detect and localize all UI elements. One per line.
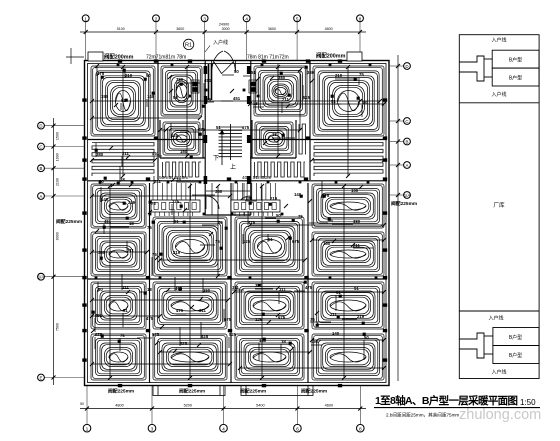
svg-text:51: 51 [216, 125, 221, 130]
svg-text:150: 150 [351, 188, 359, 193]
svg-text:1:50: 1:50 [520, 398, 536, 407]
sidebar divider bottom [459, 310, 539, 312]
axis bubble 6 (bottom) [294, 424, 302, 432]
svg-text:75: 75 [215, 239, 220, 244]
heating coil bath A tub [163, 122, 200, 155]
svg-text:51: 51 [174, 219, 179, 224]
bottom axis lines [87, 385, 360, 424]
svg-text:475: 475 [146, 316, 154, 321]
svg-text:451: 451 [104, 219, 112, 224]
svg-text:475: 475 [305, 285, 313, 290]
svg-text:4800: 4800 [115, 403, 123, 407]
svg-text:475: 475 [97, 71, 105, 76]
svg-text:4: 4 [222, 426, 225, 432]
svg-text:311: 311 [279, 287, 287, 292]
sidebar divider top [459, 102, 539, 104]
axis bubble 1/A (right) [404, 192, 411, 199]
svg-text:3000: 3000 [222, 27, 230, 31]
svg-text:B: B [406, 139, 409, 144]
svg-text:75: 75 [120, 333, 125, 338]
svg-text:B户型: B户型 [509, 352, 522, 359]
svg-text:51: 51 [123, 308, 128, 313]
svg-text:B: B [40, 166, 43, 171]
svg-text:211: 211 [127, 248, 135, 253]
svg-text:入户线: 入户线 [491, 369, 506, 376]
svg-text:18: 18 [147, 287, 152, 292]
svg-text:5: 5 [296, 16, 299, 21]
unit entry door right [237, 196, 250, 209]
svg-text:50: 50 [98, 287, 103, 292]
svg-text:D: D [39, 123, 42, 128]
leader lines and valves [91, 64, 373, 361]
core manifold boxes [191, 80, 257, 93]
svg-text:51: 51 [354, 286, 359, 291]
heating coil living B-top-right [313, 66, 384, 136]
svg-text:2: 2 [155, 16, 158, 21]
heating coil bed A2 top [161, 66, 202, 116]
exterior wall inner [88, 64, 387, 383]
svg-text:75: 75 [298, 214, 303, 219]
axis bubble A (right) [404, 162, 411, 169]
heating coil living A-top-left [91, 66, 155, 136]
svg-text:8: 8 [359, 16, 362, 21]
svg-text:1: 1 [86, 426, 89, 432]
svg-text:211: 211 [330, 312, 338, 317]
heating coil bed B2 top [254, 66, 307, 116]
svg-text:40m 51m50m: 40m 51m50m [242, 175, 271, 181]
svg-text:475: 475 [204, 97, 212, 102]
svg-text:150: 150 [311, 339, 319, 344]
svg-text:6: 6 [296, 426, 299, 432]
svg-text:2100: 2100 [56, 178, 60, 186]
svg-text:入户线: 入户线 [213, 39, 228, 46]
svg-text:C: C [39, 144, 42, 149]
sidebar outline [459, 35, 539, 379]
riser tag R1 [183, 39, 193, 49]
svg-text:311: 311 [199, 308, 207, 313]
svg-text:D: D [405, 64, 408, 69]
bottom dimension line [80, 402, 366, 411]
svg-text:75: 75 [359, 72, 364, 77]
svg-text:51: 51 [331, 99, 336, 104]
svg-text:219: 219 [335, 73, 343, 78]
svg-text:219: 219 [173, 250, 181, 255]
svg-text:380: 380 [215, 189, 223, 194]
svg-text:下: 下 [213, 155, 219, 162]
svg-text:125: 125 [243, 239, 251, 244]
sidebar manifold bracket top [459, 56, 492, 81]
svg-text:E: E [40, 375, 43, 380]
svg-text:3600: 3600 [176, 27, 184, 31]
svg-text:51: 51 [336, 290, 341, 295]
svg-text:3600: 3600 [268, 27, 276, 31]
svg-text:8: 8 [359, 426, 362, 432]
svg-text:1600: 1600 [56, 153, 60, 161]
svg-text:3: 3 [151, 426, 154, 432]
svg-text:阀配200mm: 阀配200mm [104, 53, 134, 61]
svg-text:入户线: 入户线 [491, 91, 506, 98]
heating coil room D14 [312, 282, 384, 329]
manifold riser bundle A [153, 183, 195, 216]
svg-text:150: 150 [180, 149, 188, 154]
svg-text:150: 150 [101, 94, 109, 99]
heating coil duct strip B [299, 124, 306, 154]
svg-text:75: 75 [176, 177, 181, 182]
svg-text:5200: 5200 [184, 403, 192, 407]
svg-text:阀配225mm: 阀配225mm [391, 200, 417, 207]
sidebar unit box B1 top [492, 50, 539, 68]
svg-text:zhulong.com: zhulong.com [459, 407, 541, 423]
svg-text:525: 525 [229, 332, 237, 337]
unit entry door left [206, 196, 219, 209]
heating coil room C14 [312, 184, 384, 228]
interior walls [88, 61, 387, 383]
sidebar unit box B2 top [492, 68, 539, 86]
svg-text:380: 380 [96, 152, 104, 157]
svg-text:380: 380 [307, 70, 315, 75]
svg-text:5400: 5400 [256, 403, 264, 407]
top-left parapet [88, 52, 103, 61]
axis bubble E (left) [38, 374, 45, 381]
right axis lines [390, 66, 404, 195]
axis bubble 4 (top) [243, 15, 250, 22]
entry door swing [212, 51, 236, 74]
svg-text:75: 75 [151, 201, 156, 206]
axis bubble 1 (top) [82, 15, 89, 22]
svg-text:51: 51 [251, 70, 256, 75]
svg-text:18: 18 [253, 101, 258, 106]
svg-text:451: 451 [233, 96, 241, 101]
entry riser pipes [209, 64, 212, 100]
svg-text:50: 50 [173, 95, 178, 100]
heating coil room D13 [235, 282, 304, 329]
heating coil room C-tall 3 [235, 217, 304, 276]
heating coil hall B [314, 143, 383, 177]
svg-text:3: 3 [203, 16, 206, 21]
svg-text:B户型: B户型 [509, 75, 522, 82]
valve squares [95, 64, 378, 280]
svg-text:475: 475 [176, 308, 184, 313]
title underline [374, 407, 540, 409]
svg-text:B户型: B户型 [509, 334, 522, 341]
svg-text:4: 4 [245, 16, 248, 21]
axis bubble 3 (top) [201, 15, 208, 22]
svg-text:1/A: 1/A [404, 193, 411, 198]
sidebar unit box B1 bottom [493, 328, 539, 346]
svg-text:219: 219 [125, 73, 133, 78]
svg-text:1: 1 [84, 16, 87, 21]
svg-text:219: 219 [357, 314, 365, 319]
svg-text:451: 451 [152, 151, 160, 156]
svg-text:50: 50 [80, 402, 84, 406]
svg-text:140: 140 [101, 197, 109, 202]
manifold riser bundle B [233, 183, 275, 216]
svg-text:675: 675 [292, 239, 300, 244]
manifold B [231, 200, 280, 212]
axis bubble 3 (bottom) [148, 424, 156, 432]
svg-text:211: 211 [282, 97, 290, 102]
svg-text:7500: 7500 [56, 323, 60, 331]
svg-text:18: 18 [362, 100, 367, 105]
axis bubble 1 (bottom) [83, 424, 91, 432]
svg-text:140: 140 [332, 331, 340, 336]
entry steps left [153, 386, 225, 396]
axis bubble 8 (top) [357, 15, 364, 22]
right dimension line [396, 55, 400, 381]
top-left stub dimension [66, 48, 84, 64]
axis bubble D (right) [404, 63, 411, 70]
room dimension arrows [90, 65, 386, 380]
core lobby lines [206, 183, 250, 215]
svg-text:525: 525 [180, 341, 188, 346]
svg-text:入户线: 入户线 [491, 37, 506, 44]
svg-text:18: 18 [281, 339, 286, 344]
axis bubble C (right) [404, 118, 411, 125]
svg-text:150: 150 [323, 241, 331, 246]
axis bubble 8 (bottom) [357, 424, 365, 432]
heating coil room D12 [153, 282, 227, 329]
svg-text:阀配225mm: 阀配225mm [56, 218, 82, 225]
top dimension line [80, 23, 366, 35]
svg-text:阀配225mm: 阀配225mm [240, 388, 266, 395]
svg-text:18: 18 [272, 132, 277, 137]
svg-text:18: 18 [120, 177, 125, 182]
svg-text:1至8轴A、B户型一层采暖平面图: 1至8轴A、B户型一层采暖平面图 [375, 394, 518, 407]
svg-text:1/A: 1/A [38, 275, 45, 280]
core columns [204, 66, 251, 184]
svg-text:675: 675 [224, 317, 232, 322]
svg-text:6000: 6000 [56, 232, 60, 240]
axis bubble B (right) [404, 138, 411, 145]
svg-text:阀配225mm: 阀配225mm [108, 388, 134, 395]
svg-text:阀配225mm: 阀配225mm [301, 388, 327, 395]
heating coil kitchen B [255, 162, 306, 177]
svg-text:A: A [406, 163, 409, 168]
svg-text:211: 211 [122, 151, 130, 156]
exterior wall outer [85, 61, 390, 386]
svg-text:211: 211 [122, 285, 130, 290]
heating coil room D11 [91, 282, 146, 329]
svg-text:50: 50 [276, 213, 281, 218]
svg-text:150: 150 [203, 288, 211, 293]
svg-text:4600: 4600 [325, 403, 333, 407]
heating coil bath B tub [255, 122, 293, 155]
svg-text:50m51m 40m: 50m51m 40m [159, 175, 188, 181]
left dimension line [52, 118, 60, 385]
svg-text:78m 81m 71m72m: 78m 81m 71m72m [247, 55, 289, 61]
heating coil kitchen A [163, 162, 202, 177]
svg-text:475: 475 [248, 220, 256, 225]
svg-text:5100: 5100 [117, 27, 125, 31]
svg-text:675: 675 [278, 315, 286, 320]
axis bubble 1/A (left) [38, 273, 45, 280]
svg-text:50: 50 [218, 220, 223, 225]
svg-text:219: 219 [270, 196, 278, 201]
svg-text:厂库: 厂库 [493, 201, 505, 209]
svg-text:475: 475 [198, 127, 206, 132]
svg-text:A: A [40, 194, 43, 199]
svg-text:125: 125 [255, 317, 263, 322]
svg-text:525: 525 [152, 332, 160, 337]
scattered dimension annotations [95, 69, 369, 346]
axis bubble 2 (top) [153, 15, 160, 22]
svg-text:380: 380 [353, 219, 361, 224]
axis bubble C (left) [38, 143, 45, 150]
heating coil room D21 [91, 334, 146, 380]
svg-text:上: 上 [230, 163, 236, 171]
manifold A [151, 200, 200, 212]
svg-text:入户线: 入户线 [488, 315, 503, 322]
svg-text:1500: 1500 [56, 132, 60, 140]
svg-text:R1: R1 [185, 43, 192, 49]
svg-text:125: 125 [171, 133, 179, 138]
svg-text:2.b间距间距25mm，其余间距75mm: 2.b间距间距25mm，其余间距75mm [386, 412, 459, 419]
axis bubble 5 (top) [294, 15, 301, 22]
sidebar manifold bracket bottom [459, 333, 493, 358]
svg-text:51: 51 [268, 237, 273, 242]
svg-text:B户型: B户型 [509, 57, 522, 64]
wall junction columns [82, 59, 387, 387]
svg-text:125: 125 [172, 199, 180, 204]
sidebar unit box B2 bottom [493, 346, 539, 364]
svg-text:525: 525 [201, 334, 209, 339]
entry steps right [241, 386, 313, 396]
top-right parapet [347, 52, 362, 61]
axis bubble 4 (bottom) [220, 424, 228, 432]
heating coil room C-tall 2 [153, 217, 227, 276]
svg-text:4600: 4600 [325, 27, 333, 31]
svg-text:75: 75 [147, 225, 152, 230]
heating coil room C11 [91, 184, 146, 228]
axis bubble A (left) [38, 193, 45, 200]
heating coil room D22 [153, 334, 227, 380]
svg-text:311: 311 [232, 285, 240, 290]
svg-text:50: 50 [146, 73, 151, 78]
axis bubble B (left) [38, 165, 45, 172]
heating coil room D24 [312, 334, 384, 380]
heating coil room C21 [91, 232, 146, 276]
svg-text:阀配200mm: 阀配200mm [316, 52, 346, 60]
left axis lines [44, 126, 84, 378]
svg-text:380: 380 [278, 75, 286, 80]
svg-text:675: 675 [242, 125, 250, 130]
heating coil room D23 [235, 334, 304, 380]
svg-text:50: 50 [234, 69, 239, 74]
svg-text:451: 451 [95, 313, 103, 318]
svg-text:C: C [405, 119, 408, 124]
heating coil hall A [92, 143, 154, 177]
svg-text:380: 380 [98, 250, 106, 255]
axis bubble D (left) [38, 122, 45, 129]
svg-text:451: 451 [204, 78, 212, 83]
svg-text:75: 75 [152, 252, 157, 257]
svg-text:72m71m81m 78m: 72m71m81m 78m [146, 55, 186, 61]
svg-text:阀配225mm: 阀配225mm [179, 388, 205, 395]
stair treads [219, 124, 243, 165]
svg-text:24900: 24900 [219, 23, 230, 27]
svg-text:380: 380 [176, 77, 184, 82]
svg-text:18: 18 [129, 221, 134, 226]
svg-text:125: 125 [245, 196, 253, 201]
heating coil room C24 [312, 232, 384, 276]
svg-text:219: 219 [128, 200, 136, 205]
svg-text:525: 525 [303, 95, 311, 100]
svg-text:75: 75 [310, 317, 315, 322]
svg-text:211: 211 [154, 179, 162, 184]
top axis lines [86, 22, 360, 61]
